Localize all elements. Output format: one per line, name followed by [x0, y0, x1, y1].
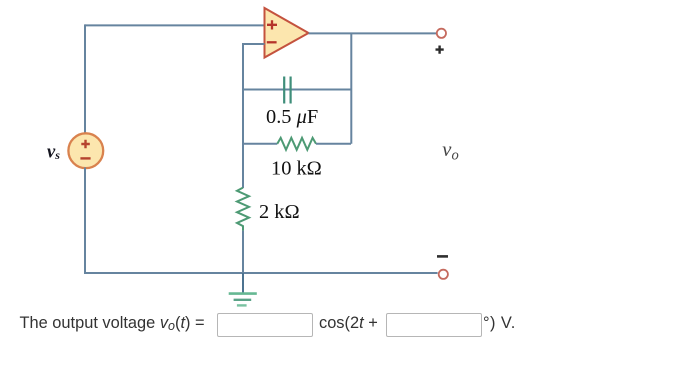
label vs	[47, 142, 60, 162]
svg-text:o: o	[452, 147, 459, 163]
wire: left vertical below source	[84, 168, 86, 275]
ground	[229, 273, 257, 305]
voltage source Vs	[68, 133, 103, 168]
label 10 kOhm	[271, 158, 322, 180]
op-amp U1	[265, 8, 309, 58]
wire: feedback left vertical	[242, 44, 244, 188]
label vo	[442, 139, 458, 164]
caption: degree V	[483, 315, 516, 331]
wire: feedback right vertical	[350, 33, 352, 144]
label 2 kOhm	[259, 201, 300, 223]
label 0.5 uF	[266, 106, 318, 128]
wire: inverting input stub	[242, 43, 265, 45]
capacitor C1 plates	[284, 77, 290, 104]
wire: resistor horizontal right	[316, 143, 351, 145]
wire: op-amp output	[309, 32, 437, 34]
wire: resistor horizontal left	[243, 143, 277, 145]
svg-text:0.5 μF: 0.5 μF	[266, 106, 318, 128]
svg-text:s: s	[54, 148, 60, 162]
wire: bottom rail	[84, 272, 438, 274]
svg-text:10 kΩ: 10 kΩ	[271, 158, 322, 180]
wire: below 2k resistor to bottom rail	[242, 231, 244, 273]
svg-text:2 kΩ: 2 kΩ	[259, 201, 300, 223]
output terminal top (+)	[436, 29, 447, 54]
caption: cos(2t +	[319, 315, 378, 331]
output terminal bottom (-)	[437, 256, 448, 279]
wire: capacitor horizontal	[243, 89, 351, 91]
input box 2 (phase)	[386, 313, 482, 337]
input box 1 (amplitude)	[217, 313, 313, 337]
wire: top from source node to op-amp + input	[85, 24, 265, 26]
caption: The output voltage vo(t) =	[20, 315, 205, 331]
resistor R2 2k zigzag vertical	[237, 188, 249, 231]
resistor R1 10k zigzag	[277, 138, 316, 150]
wire: left vertical above source	[84, 24, 86, 132]
